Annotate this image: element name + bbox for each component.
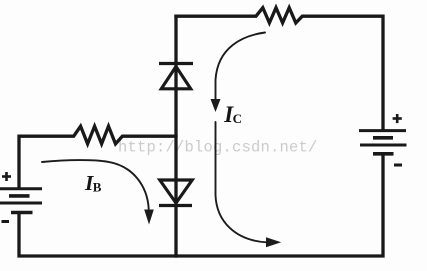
svg-text:http://blog.csdn.net/: http://blog.csdn.net/ [118,139,318,157]
svg-text:C: C [233,111,242,126]
svg-text:B: B [93,179,102,194]
